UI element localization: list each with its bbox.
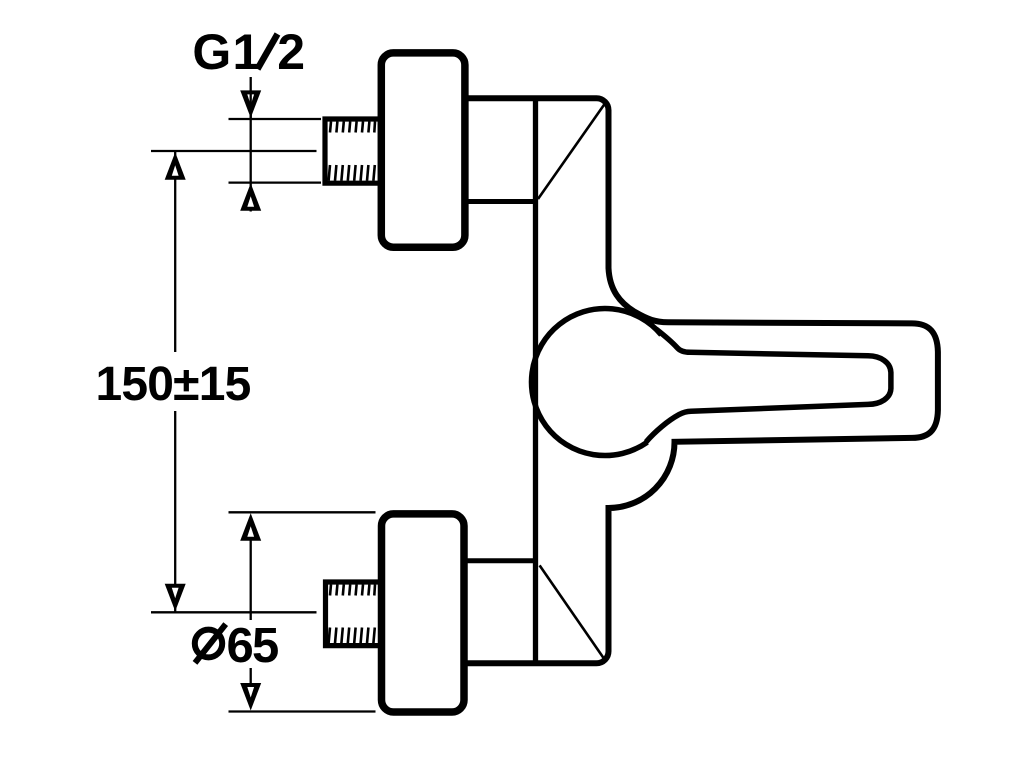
dia65 dimension vertical lower segment bbox=[250, 668, 252, 684]
150 dimension vertical line upper segment bbox=[174, 151, 176, 352]
label G1/2 slash bbox=[258, 34, 278, 69]
thread bottom port hatching lower row bbox=[329, 628, 375, 644]
thread top port hatching upper row bbox=[330, 122, 375, 133]
G1/2 arrow up bbox=[240, 183, 261, 211]
bottom flange bbox=[382, 514, 465, 712]
lever inner contour outline bbox=[646, 329, 891, 442]
top boss lower line bbox=[462, 199, 536, 204]
bottom diagonal line bbox=[540, 565, 607, 662]
reference centerline top port bbox=[151, 150, 317, 152]
dimension extension line top port upper bbox=[229, 118, 322, 120]
thread top port outline bbox=[325, 119, 381, 183]
thread top port hatching lower row bbox=[329, 165, 375, 181]
150 arrow up bbox=[165, 152, 186, 180]
dia65 arrow up bbox=[240, 513, 261, 541]
G1/2 dimension vertical line bbox=[250, 77, 252, 212]
reference centerline bottom port bbox=[151, 611, 317, 613]
dia65 dimension vertical upper segment bbox=[250, 540, 252, 620]
dia65 arrow down bbox=[240, 683, 261, 711]
faucet body and lever white fill bbox=[462, 98, 938, 663]
bottom boss upper line bbox=[462, 558, 536, 563]
svg-text:G1: G1 bbox=[192, 24, 261, 80]
label Ø65 diameter symbol slash bbox=[195, 624, 226, 663]
thread bottom port hatching upper row bbox=[330, 585, 375, 596]
G1/2 arrow down bbox=[240, 90, 261, 118]
150 arrow down bbox=[165, 584, 186, 612]
top flange bbox=[381, 53, 465, 247]
dimension extension line top port lower bbox=[229, 181, 322, 183]
ball circle arc bbox=[531, 309, 661, 456]
svg-text:150±15: 150±15 bbox=[96, 358, 251, 411]
dia65 extension line upper bbox=[229, 511, 376, 513]
svg-text:65: 65 bbox=[227, 619, 278, 673]
faucet outer outline bbox=[462, 98, 938, 663]
thread bottom port outline bbox=[326, 582, 382, 646]
150 dimension vertical line lower segment bbox=[174, 411, 176, 612]
body left edge line bbox=[533, 98, 538, 663]
top diagonal line bbox=[538, 102, 606, 199]
dia65 extension line lower bbox=[229, 710, 376, 712]
lever inner contour white fill bbox=[646, 329, 891, 442]
label Ø65 diameter symbol circle bbox=[195, 630, 222, 658]
svg-text:2: 2 bbox=[277, 24, 305, 80]
